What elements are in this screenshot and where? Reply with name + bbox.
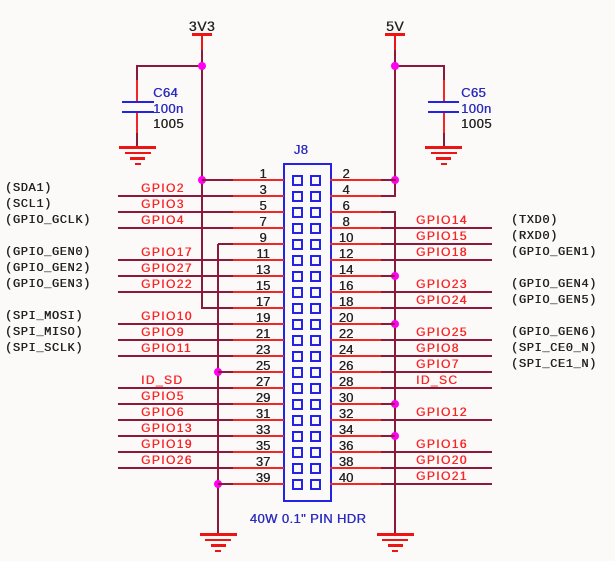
pin number 30 xyxy=(324,391,368,404)
signal name (SCL1) xyxy=(5,198,52,210)
connector J8 contact squares row 4 (pins 7/8) xyxy=(292,223,303,234)
connector J8 contact squares row 3 (pins 5/6) xyxy=(292,207,303,218)
pin number 14 xyxy=(324,263,368,276)
wire pin 10 (right) xyxy=(381,243,492,245)
wire 5V to C65 branch xyxy=(395,65,445,67)
signal name (SPI_CE0_N) xyxy=(511,342,597,354)
wire pin 14 (right) xyxy=(381,275,395,277)
value 100n (C65) xyxy=(461,102,492,115)
pin number 26 xyxy=(324,359,368,372)
junction 3V3/pin1 xyxy=(198,176,206,184)
connector J8 contact squares row 13 (pins 25/26) xyxy=(292,367,303,378)
label C65 xyxy=(461,86,486,99)
pin 4 xyxy=(330,195,381,197)
capacitor C65 xyxy=(443,65,445,101)
connector J8 contact squares row 5 (pins 9/10) xyxy=(292,239,303,250)
junction GND/pin14 xyxy=(391,272,399,280)
connector J8 contact squares row 6 (pins 11/12) xyxy=(292,255,303,266)
pin number 2 xyxy=(324,167,368,180)
wire pin 40 (right) xyxy=(381,483,492,485)
wire pin 11 (left) xyxy=(118,259,233,261)
wire pin 39 (left) xyxy=(218,483,233,485)
wire pin 26 (right) xyxy=(381,371,492,373)
pin 22 xyxy=(330,339,381,341)
wire pin 17 (left) xyxy=(202,307,233,309)
pin 19 xyxy=(233,323,284,325)
connector J8 contact squares row 17 (pins 33/34) xyxy=(292,431,303,442)
wire pin 13 (left) xyxy=(118,275,233,277)
net label GPIO6 xyxy=(141,406,185,418)
pin 12 xyxy=(330,259,381,261)
pin number 11 xyxy=(241,247,285,260)
pin 36 xyxy=(330,451,381,453)
signal name (GPIO_GEN2) xyxy=(5,262,91,274)
pin 38 xyxy=(330,467,381,469)
pin 9 xyxy=(233,243,284,245)
connector J8 contact squares row 14 (pins 27/28) xyxy=(292,383,303,394)
pin number 33 xyxy=(241,423,285,436)
pin number 16 xyxy=(324,279,368,292)
connector J8 contact squares row 8 (pins 15/16) xyxy=(292,287,303,298)
pin number 35 xyxy=(241,439,285,452)
pin number 7 xyxy=(241,215,285,228)
pin number 23 xyxy=(241,343,285,356)
net label GPIO9 xyxy=(141,326,185,338)
signal name (GPIO_GEN1) xyxy=(511,246,597,258)
wire pin 31 (left) xyxy=(118,419,233,421)
pin number 22 xyxy=(324,327,368,340)
net label GPIO25 xyxy=(416,326,468,338)
pin number 24 xyxy=(324,343,368,356)
pin number 19 xyxy=(241,311,285,324)
pin number 9 xyxy=(241,231,285,244)
net label GPIO10 xyxy=(141,310,193,322)
signal name (RXD0) xyxy=(511,230,558,242)
net label GPIO14 xyxy=(416,214,468,226)
pin 25 xyxy=(233,371,284,373)
net label GPIO2 xyxy=(141,182,185,194)
net label GPIO4 xyxy=(141,214,185,226)
net label GPIO5 xyxy=(141,390,185,402)
pin 32 xyxy=(330,419,381,421)
pin 7 xyxy=(233,227,284,229)
connector J8 contact squares row 19 (pins 37/38) xyxy=(292,463,303,474)
signal name (SDA1) xyxy=(5,182,52,194)
ground under C64 xyxy=(119,146,156,149)
wire pin 27 (left) xyxy=(118,387,233,389)
wire 5V rail vertical xyxy=(394,50,396,197)
ground bottom left xyxy=(200,533,237,536)
net label GPIO24 xyxy=(416,294,468,306)
pin number 39 xyxy=(241,471,285,484)
pin 34 xyxy=(330,435,381,437)
signal name (GPIO_GEN6) xyxy=(511,326,597,338)
connector J8 contact squares row 18 (pins 35/36) xyxy=(292,447,303,458)
wire pin 35 (left) xyxy=(118,451,233,453)
pin number 5 xyxy=(241,199,285,212)
wire pin 5 (left) xyxy=(118,211,233,213)
pin 35 xyxy=(233,451,284,453)
net label GPIO26 xyxy=(141,454,193,466)
wire pin 29 (left) xyxy=(118,403,233,405)
signal name (TXD0) xyxy=(511,214,558,226)
net label GPIO8 xyxy=(416,342,460,354)
wire pin 37 (left) xyxy=(118,467,233,469)
wire pin 18 (right) xyxy=(381,307,492,309)
connector J8 body xyxy=(283,163,332,502)
label C64 xyxy=(153,86,178,99)
signal name (GPIO_GEN4) xyxy=(511,278,597,290)
pin 30 xyxy=(330,403,381,405)
junction GND/pin30 xyxy=(391,400,399,408)
pin 1 xyxy=(233,179,284,181)
value 1005 (C64) xyxy=(153,117,184,130)
net label GPIO21 xyxy=(416,470,468,482)
pin number 1 xyxy=(241,167,285,180)
signal name (SPI_MISO) xyxy=(5,326,83,338)
connector J8 contact squares row 7 (pins 13/14) xyxy=(292,271,303,282)
pin 2 xyxy=(330,179,381,181)
pin number 38 xyxy=(324,455,368,468)
net label GPIO18 xyxy=(416,246,468,258)
net label GPIO15 xyxy=(416,230,468,242)
wire pin 6 (right) xyxy=(381,211,396,213)
wire pin 1 (left) xyxy=(202,179,233,181)
net label GPIO12 xyxy=(416,406,468,418)
pin number 32 xyxy=(324,407,368,420)
pin number 37 xyxy=(241,455,285,468)
junction 3V3/C64 xyxy=(198,62,206,70)
net label GPIO20 xyxy=(416,454,468,466)
pin number 21 xyxy=(241,327,285,340)
net label GPIO27 xyxy=(141,262,193,274)
signal name (SPI_MOSI) xyxy=(5,310,83,322)
wire pin 19 (left) xyxy=(118,323,233,325)
net label GPIO3 xyxy=(141,198,185,210)
junction GND/pin20 xyxy=(391,320,399,328)
wire pin 16 (right) xyxy=(381,291,492,293)
pin 3 xyxy=(233,195,284,197)
pin number 15 xyxy=(241,279,285,292)
wire pin 12 (right) xyxy=(381,259,492,261)
wire pin 34 (right) xyxy=(381,435,395,437)
pin number 20 xyxy=(324,311,368,324)
pin 18 xyxy=(330,307,381,309)
net label GPIO11 xyxy=(141,342,192,354)
pin 15 xyxy=(233,291,284,293)
connector J8 contact squares row 2 (pins 3/4) xyxy=(292,191,303,202)
signal name (SPI_SCLK) xyxy=(5,342,83,354)
value 1005 (C65) xyxy=(461,117,492,130)
net label ID_SD xyxy=(141,374,183,386)
power port 5V xyxy=(365,19,425,33)
connector J8 contact squares row 15 (pins 29/30) xyxy=(292,399,303,410)
net label GPIO22 xyxy=(141,278,193,290)
signal name (GPIO_GEN3) xyxy=(5,278,91,290)
pin number 10 xyxy=(324,231,368,244)
pin number 40 xyxy=(324,471,368,484)
connector J8 contact squares row 12 (pins 23/24) xyxy=(292,351,303,362)
pin 39 xyxy=(233,483,284,485)
pin number 12 xyxy=(324,247,368,260)
junction GND/pin25 xyxy=(214,368,222,376)
pin number 29 xyxy=(241,391,285,404)
pin number 27 xyxy=(241,375,285,388)
wire 3V3 rail vertical xyxy=(201,50,203,309)
wire pin 3 (left) xyxy=(118,195,233,197)
junction 5V/pin2 xyxy=(391,176,399,184)
wire pin 24 (right) xyxy=(381,355,492,357)
pin 16 xyxy=(330,291,381,293)
wire pin 38 (right) xyxy=(381,467,492,469)
connector J8 contact squares row 16 (pins 31/32) xyxy=(292,415,303,426)
value 100n (C64) xyxy=(153,102,184,115)
pin number 17 xyxy=(241,295,285,308)
pin number 31 xyxy=(241,407,285,420)
net label GPIO23 xyxy=(416,278,468,290)
pin 20 xyxy=(330,323,381,325)
wire pin 32 (right) xyxy=(381,419,492,421)
wire pin 2 (right) xyxy=(381,179,396,181)
junction GND/pin39 xyxy=(214,480,222,488)
pin number 4 xyxy=(324,183,368,196)
pin 37 xyxy=(233,467,284,469)
pin number 6 xyxy=(324,199,368,212)
pin 21 xyxy=(233,339,284,341)
junction GND/pin34 xyxy=(391,432,399,440)
wire pin 23 (left) xyxy=(118,355,233,357)
ground bottom right xyxy=(377,533,414,536)
capacitor C64 xyxy=(136,65,138,101)
wire pin 36 (right) xyxy=(381,451,492,453)
signal name (SPI_CE1_N) xyxy=(511,358,597,370)
net label ID_SC xyxy=(416,374,458,386)
wire pin 25 (left) xyxy=(218,371,233,373)
pin 24 xyxy=(330,355,381,357)
pin 29 xyxy=(233,403,284,405)
pin number 3 xyxy=(241,183,285,196)
pin 11 xyxy=(233,259,284,261)
wire pin 15 (left) xyxy=(118,291,233,293)
wire pin 33 (left) xyxy=(118,435,233,437)
wire pin 8 (right) xyxy=(381,227,492,229)
pin number 28 xyxy=(324,375,368,388)
wire pin 28 (right) xyxy=(381,387,492,389)
wire pin 20 (right) xyxy=(381,323,395,325)
pin number 34 xyxy=(324,423,368,436)
pin 27 xyxy=(233,387,284,389)
connector J8 contact squares row 9 (pins 17/18) xyxy=(292,303,303,314)
wire pin 21 (left) xyxy=(118,339,233,341)
pin number 36 xyxy=(324,439,368,452)
net label GPIO19 xyxy=(141,438,193,450)
connector J8 contact squares row 11 (pins 21/22) xyxy=(292,335,303,346)
pin 26 xyxy=(330,371,381,373)
connector J8 contact squares row 1 (pins 1/2) xyxy=(292,175,303,186)
wire 3V3 to C64 branch xyxy=(136,65,202,67)
wire GND rail right xyxy=(394,212,396,534)
connector J8 contact squares row 20 (pins 39/40) xyxy=(292,479,303,490)
pin 14 xyxy=(330,275,381,277)
wire pin 30 (right) xyxy=(381,403,395,405)
wire pin 4 (right) xyxy=(381,195,396,197)
connector J8 description xyxy=(198,512,418,525)
pin 8 xyxy=(330,227,381,229)
signal name (GPIO_GCLK) xyxy=(5,214,91,226)
pin 28 xyxy=(330,387,381,389)
ground under C65 xyxy=(425,146,462,149)
wire GND rail left xyxy=(217,244,219,534)
wire pin 9 (left) xyxy=(218,243,233,245)
pin 6 xyxy=(330,211,381,213)
wire pin 7 (left) xyxy=(118,227,233,229)
pin 13 xyxy=(233,275,284,277)
connector J8 contact squares row 10 (pins 19/20) xyxy=(292,319,303,330)
net label GPIO7 xyxy=(416,358,460,370)
connector J8 label xyxy=(281,143,321,156)
pin 5 xyxy=(233,211,284,213)
wire pin 22 (right) xyxy=(381,339,492,341)
pin 23 xyxy=(233,355,284,357)
signal name (GPIO_GEN0) xyxy=(5,246,91,258)
junction 5V/C65 xyxy=(391,62,399,70)
pin 10 xyxy=(330,243,381,245)
net label GPIO16 xyxy=(416,438,468,450)
pin 17 xyxy=(233,307,284,309)
pin number 8 xyxy=(324,215,368,228)
pin 40 xyxy=(330,483,381,485)
signal name (GPIO_GEN5) xyxy=(511,294,597,306)
pin number 18 xyxy=(324,295,368,308)
power port 3V3 xyxy=(172,19,232,33)
pin 31 xyxy=(233,419,284,421)
pin number 13 xyxy=(241,263,285,276)
pin 33 xyxy=(233,435,284,437)
net label GPIO17 xyxy=(141,246,193,258)
pin number 25 xyxy=(241,359,285,372)
net label GPIO13 xyxy=(141,422,193,434)
